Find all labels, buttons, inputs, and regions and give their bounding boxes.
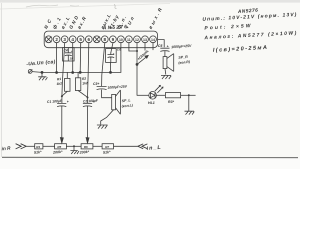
- wire pot R5 to pot R6: [66, 145, 81, 147]
- junction dot rail/ground tap: [41, 71, 43, 73]
- ground after R3: [185, 95, 195, 114]
- pin 12: [134, 36, 141, 43]
- resistor R4 (51k): [35, 144, 43, 149]
- svg-text:R7: R7: [105, 145, 109, 149]
- chevrons >> (input R): [16, 144, 27, 149]
- junction dot rail/pin4: [72, 72, 74, 74]
- svg-text:5: 5: [79, 37, 82, 42]
- svg-text:200k*: 200k*: [79, 150, 90, 155]
- capacitor C4 in box (between pins 3-4): [63, 48, 75, 61]
- wire pin9 down into box of C6: [111, 43, 113, 53]
- pin 6: [85, 36, 92, 43]
- input terminal circle (left, -Uв.Uп): [28, 69, 32, 73]
- ground under SP_L: [97, 125, 108, 129]
- wiper arrow into potentiometer R6: [86, 138, 89, 143]
- svg-text:+: +: [113, 51, 115, 55]
- svg-text:4: 4: [71, 37, 74, 42]
- svg-text:R3*: R3*: [168, 100, 175, 104]
- pin 13: [142, 36, 149, 43]
- pin 4: [69, 36, 76, 43]
- junction dot rail/C6: [110, 71, 112, 73]
- pin 3: [61, 36, 68, 43]
- potentiometer R5 (200k): [55, 144, 67, 149]
- capacitor C3 (polarized, output L): [97, 86, 112, 97]
- junction dot pins 11-12: [136, 50, 138, 52]
- capacitor C5 (polarized, output R): [160, 48, 169, 56]
- wire pin6 down across rail to C2 junction: [88, 43, 89, 97]
- LED HL1: [149, 85, 163, 99]
- junction dot rail/pin2: [56, 72, 58, 74]
- pin 2: [53, 36, 60, 43]
- ground under SP_R: [161, 75, 171, 79]
- pin 10: [118, 36, 125, 43]
- wire pin11 jog to supply wire: [129, 43, 137, 51]
- wiper arrow into potentiometer R5: [60, 138, 63, 143]
- speaker SP_L: [101, 90, 121, 125]
- wire R7 to input L chevrons: [114, 145, 138, 147]
- capacitor C1 (polarized): [57, 103, 66, 139]
- svg-text:9: 9: [112, 37, 115, 42]
- wire pin8 down to C3: [102, 43, 105, 86]
- svg-text:C3+: C3+: [93, 82, 99, 86]
- wire pot R6 to R7: [93, 145, 102, 147]
- wire C1 junction to C1: [61, 96, 63, 103]
- svg-text:2: 2: [55, 37, 58, 42]
- svg-text:R6: R6: [84, 145, 88, 149]
- pin 9: [110, 36, 117, 43]
- wire IC right edge to C5: [158, 40, 165, 48]
- wire pin14 short stub: [152, 43, 154, 50]
- svg-text:13: 13: [143, 38, 147, 42]
- capacitor C2 (polarized): [83, 103, 92, 139]
- wire supply to LED: [137, 94, 149, 96]
- junction dot center tap: [73, 145, 75, 147]
- speaker SP_R: [163, 54, 174, 75]
- svg-text:8: 8: [104, 37, 107, 42]
- chevrons << (input L): [138, 144, 148, 149]
- wire pin3 down to C1 junction: [62, 43, 65, 96]
- svg-text:10: 10: [119, 38, 123, 42]
- pin 14: [150, 36, 157, 43]
- wire pin13 short stub: [144, 43, 146, 50]
- potentiometer R6 (200k): [81, 144, 93, 149]
- svg-text:C6: C6: [117, 47, 121, 51]
- svg-text:11: 11: [127, 38, 131, 42]
- wire pin4 down to ground rail: [72, 43, 74, 73]
- +Uпит arrow on supply wire: [136, 55, 148, 65]
- pin 7 (NC, crossed): [93, 36, 100, 43]
- pin 11: [125, 36, 132, 43]
- resistor R7 (51k): [102, 144, 113, 149]
- svg-text:HL1: HL1: [148, 101, 155, 105]
- resistor R1 (vertical): [66, 72, 68, 78]
- wire R4 to pot R5: [43, 145, 55, 147]
- svg-text:14: 14: [151, 38, 155, 42]
- wire pin2 down to ground rail: [56, 43, 58, 73]
- wire pin10 down to ground rail end: [120, 43, 122, 72]
- pin 1 (NC, crossed): [45, 36, 52, 43]
- ground center bottom: [70, 146, 79, 154]
- resistor R2 (vertical): [77, 72, 79, 77]
- svg-text:10: 10: [70, 57, 74, 61]
- junction dot after R3: [188, 94, 190, 96]
- svg-text:51k*: 51k*: [34, 150, 42, 155]
- wire pin12 supply line down to LED: [136, 43, 138, 95]
- svg-text:200k*: 200k*: [52, 150, 63, 155]
- resistor R3 (horizontal): [156, 93, 195, 98]
- junction dot rail/pin5: [79, 71, 81, 73]
- svg-text:6: 6: [88, 37, 91, 42]
- wire C2 junction to C2: [87, 97, 89, 103]
- svg-text:in R: in R: [1, 145, 11, 151]
- op-amp IC U1 AN5276 body: [44, 31, 157, 48]
- svg-text:in_L: in_L: [146, 145, 160, 152]
- svg-text:C4: C4: [64, 49, 68, 53]
- wire pin5 down to ground rail: [79, 43, 82, 72]
- svg-text:+: +: [167, 44, 169, 48]
- svg-text:+: +: [71, 49, 73, 53]
- wire to R4: [26, 145, 35, 147]
- ground rail wire: [32, 71, 121, 74]
- svg-text:1k2: 1k2: [56, 82, 62, 86]
- pin 8: [101, 36, 108, 43]
- svg-text:51k*: 51k*: [103, 150, 111, 155]
- svg-text:12: 12: [135, 38, 139, 42]
- ground symbol under rail left: [38, 72, 47, 80]
- svg-text:R4: R4: [36, 145, 40, 149]
- svg-text:3: 3: [63, 37, 66, 42]
- svg-text:R5: R5: [57, 145, 61, 149]
- svg-text:1k2: 1k2: [82, 81, 88, 85]
- svg-text:+: +: [67, 100, 69, 104]
- pin 5: [77, 36, 84, 43]
- capacitor C6 in box (between pins 9-10): [106, 49, 117, 73]
